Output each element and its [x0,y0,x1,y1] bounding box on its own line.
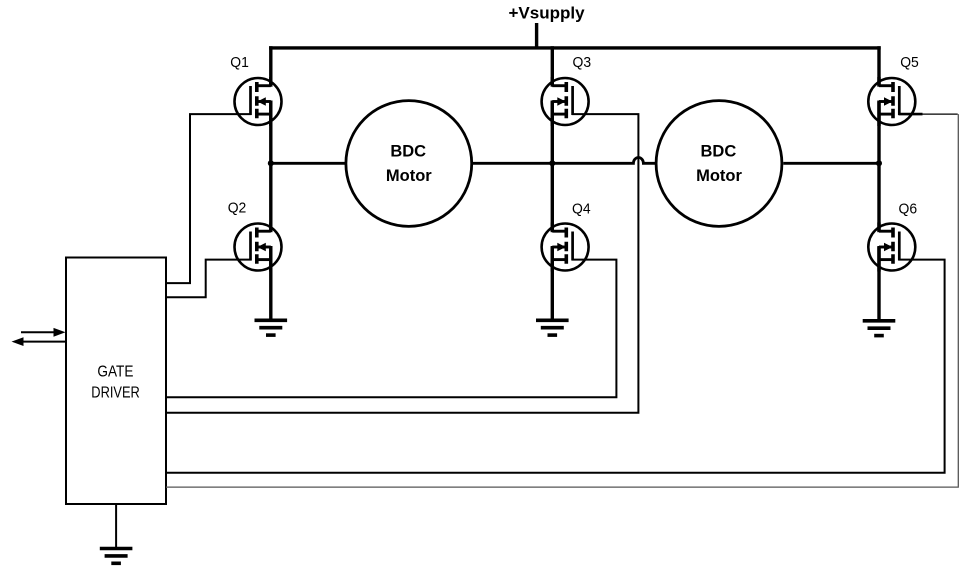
svg-text:Q3: Q3 [573,54,592,71]
wire Q6 gate to gate driver [166,260,945,473]
wire Q5 drain to rail [877,46,880,85]
transistor Q6 [868,223,915,272]
node A junction dot [268,160,274,166]
gate driver input arrow (right) [21,328,66,337]
wire Q4 gate to gate driver [166,260,616,398]
svg-text:Motor: Motor [386,167,432,185]
svg-text:Q2: Q2 [228,199,247,216]
+Vsupply top rail wire [269,46,881,49]
wire motor M1 to node B [471,162,552,165]
wire Q3 source to node B [551,102,554,164]
wire Q5 gate vertical to bottom (thin grey) [166,114,959,487]
transistor Q5 [868,77,915,126]
wire Q1 drain to rail [269,46,272,85]
node B junction dot [549,160,555,166]
wire Q3 drain to rail [551,46,554,85]
wire Q5 source to node C [877,102,880,164]
+Vsupply lead wire [535,23,538,48]
ground under gate driver [100,549,133,564]
node C junction dot [876,160,882,166]
wire Q2 source to ground [269,247,272,320]
wire Q2 gate to gate driver [166,260,252,298]
ground under Q4 [536,320,569,335]
wire motor M2 to node C [783,162,879,165]
wire Q5 gate horizontal thin [923,113,958,115]
wire Q6 source to ground [877,247,880,321]
gate driver U1 [66,258,166,505]
svg-text:Q4: Q4 [572,200,591,217]
svg-text:Q5: Q5 [900,54,919,71]
transistor Q2 [235,223,282,272]
wire Q4 source to ground [551,247,554,320]
transistor Q4 [542,223,589,272]
motor M1 (BDC Motor) [346,101,472,227]
svg-text:Q6: Q6 [899,201,918,218]
transistor Q1 [235,77,282,126]
wire Q1 gate to gate driver [166,114,252,283]
wire Q5 gate stub [899,113,923,116]
wire node B to motor M2 with hop over Q3 gate wire [552,158,655,164]
svg-text:BDC: BDC [701,143,737,161]
wire Q1 source to node A [269,102,272,164]
wire Q3 gate to gate driver [166,114,638,413]
svg-text:DRIVER: DRIVER [91,385,140,402]
svg-text:Motor: Motor [696,167,742,185]
svg-text:+Vsupply: +Vsupply [508,3,585,22]
wire node A to motor M1 [271,162,347,165]
ground under Q2 [255,320,288,335]
gate driver output arrow (left) [12,337,67,346]
wire node C to Q6 drain [877,163,880,231]
ground under Q6 [863,321,896,336]
svg-text:Q1: Q1 [230,54,249,71]
wire node A to Q2 drain [269,163,272,231]
svg-text:BDC: BDC [390,143,426,161]
wire gate driver to ground [115,504,117,548]
wire node B to Q4 drain [551,163,554,231]
svg-text:GATE: GATE [97,364,133,381]
motor M2 (BDC Motor) [656,101,782,227]
transistor Q3 [542,77,589,126]
